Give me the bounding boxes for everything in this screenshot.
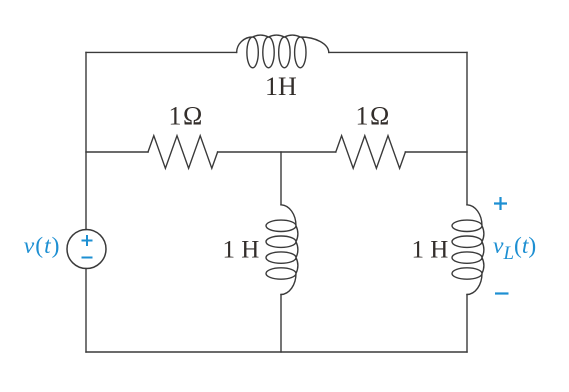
- voltage source polarity marks (blue + and -): [82, 235, 93, 258]
- label: resistor R1 value 1Ω: [169, 102, 204, 131]
- svg-text:1H: 1H: [265, 72, 297, 101]
- resistor R2 1Ω (right): [336, 136, 406, 169]
- voltage source v(t) circle: [67, 230, 106, 269]
- inductor L1 1H (top horizontal coil): [237, 35, 329, 68]
- wire: middle horizontal, left of R1: [86, 151, 148, 153]
- label: inductor L1 value 1H: [265, 72, 297, 101]
- wire: middle horizontal, right of R2: [405, 151, 467, 153]
- label: inductor L2 value 1 H: [223, 236, 260, 263]
- svg-text:1 H: 1 H: [412, 236, 449, 263]
- svg-text:1Ω: 1Ω: [169, 102, 204, 131]
- wire: top-right horizontal segment: [329, 51, 467, 53]
- wire: middle branch below L2 to bottom wire: [280, 295, 282, 353]
- label: polarity + for vL (blue): [494, 197, 507, 210]
- svg-text:v(t): v(t): [24, 233, 61, 259]
- wire: top-left horizontal segment: [86, 51, 237, 53]
- svg-text:1Ω: 1Ω: [356, 102, 391, 131]
- wire: middle branch from node A down to L2: [280, 152, 282, 205]
- wire: left vertical below source: [85, 269, 87, 353]
- wire: middle horizontal between R1 and R2 (through node A): [218, 151, 336, 153]
- resistor R1 1Ω (left): [148, 136, 218, 169]
- wire: left vertical above source: [85, 52, 87, 229]
- wire: bottom horizontal: [86, 351, 467, 353]
- label: source value v(t): [24, 233, 61, 259]
- label: resistor R2 value 1Ω: [356, 102, 391, 131]
- inductor L3 1H (right vertical coil): [452, 205, 484, 295]
- wire: right vertical below L3: [466, 295, 468, 353]
- inductor L2 1H (middle vertical coil): [266, 205, 298, 295]
- label: polarity - for vL (blue): [495, 292, 509, 294]
- label: inductor L3 value 1 H: [412, 236, 449, 263]
- wire: right vertical above L3: [466, 52, 468, 204]
- svg-text:vL(t): vL(t): [493, 233, 536, 264]
- svg-text:1 H: 1 H: [223, 236, 260, 263]
- label: inductor voltage vL(t) (blue): [493, 233, 536, 264]
